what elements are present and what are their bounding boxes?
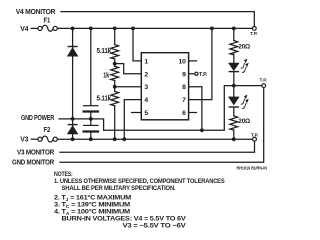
svg-text:5.11k: 5.11k	[97, 95, 112, 102]
svg-text:20Ω: 20Ω	[238, 118, 250, 125]
svg-text:1. UNLESS OTHERWISE SPECIFIED,: 1. UNLESS OTHERWISE SPECIFIED, COMPONENT…	[54, 178, 225, 185]
svg-text:5: 5	[144, 110, 148, 117]
svg-text:10: 10	[179, 58, 187, 65]
svg-text:T.P.: T.P.	[199, 72, 208, 78]
svg-text:T.P.: T.P.	[259, 78, 267, 84]
svg-text:20Ω: 20Ω	[238, 43, 250, 50]
svg-text:F2: F2	[44, 127, 51, 134]
svg-text:3: 3	[144, 84, 148, 91]
svg-text:1: 1	[144, 58, 148, 65]
svg-text:GND POWER: GND POWER	[21, 115, 54, 122]
svg-text:T.P.: T.P.	[251, 132, 259, 138]
svg-text:V3 = −5.5V TO −6V: V3 = −5.5V TO −6V	[123, 223, 187, 230]
svg-text:4. TA = 100°C MINIMUM: 4. TA = 100°C MINIMUM	[54, 208, 131, 216]
svg-text:V4: V4	[20, 26, 28, 33]
svg-text:9: 9	[182, 71, 186, 78]
svg-text:1k: 1k	[103, 72, 109, 79]
svg-text:8: 8	[182, 84, 186, 91]
svg-text:GND MONITOR: GND MONITOR	[12, 160, 54, 167]
svg-text:6: 6	[182, 110, 186, 117]
svg-text:V4 MONITOR: V4 MONITOR	[16, 9, 56, 16]
svg-text:F1: F1	[44, 18, 51, 25]
svg-text:4: 4	[144, 97, 148, 104]
svg-text:3. TC = 139°C MINIMUM: 3. TC = 139°C MINIMUM	[54, 201, 131, 209]
svg-text:5.11k: 5.11k	[97, 48, 112, 55]
svg-text:T.P.: T.P.	[250, 31, 258, 37]
svg-text:SHALL BE PER MILITARY SPECIFIC: SHALL BE PER MILITARY SPECIFICATION.	[62, 185, 176, 192]
svg-text:V3 MONITOR: V3 MONITOR	[17, 150, 54, 157]
svg-text:NOTES:: NOTES:	[54, 171, 73, 178]
svg-text:2: 2	[144, 71, 148, 78]
svg-text:7: 7	[182, 97, 186, 104]
svg-text:RH1019 BURN-IN: RH1019 BURN-IN	[237, 165, 268, 170]
svg-text:V3: V3	[20, 137, 28, 144]
svg-text:BURN-IN VOLTAGES: V4 = 5.5V TO: BURN-IN VOLTAGES: V4 = 5.5V TO 6V	[62, 216, 187, 223]
svg-text:2. TJ = 161°C MAXIMUM: 2. TJ = 161°C MAXIMUM	[54, 194, 132, 202]
